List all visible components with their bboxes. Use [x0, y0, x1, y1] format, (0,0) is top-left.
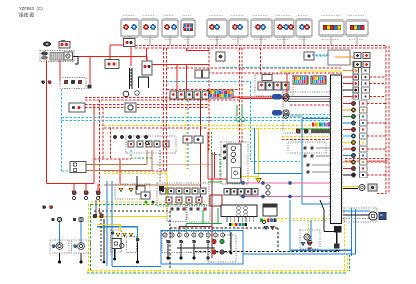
svg-text:YZF863（C）: YZF863（C） — [19, 6, 45, 11]
svg-text:接线 图: 接线 图 — [19, 12, 34, 19]
